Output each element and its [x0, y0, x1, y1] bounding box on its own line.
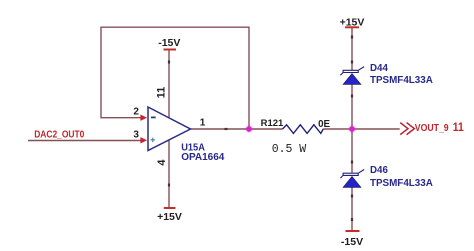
- svg-text:R121: R121: [261, 118, 284, 129]
- svg-text:11: 11: [155, 87, 167, 99]
- svg-text:DAC2_OUT0: DAC2_OUT0: [34, 129, 84, 141]
- svg-text:+15V: +15V: [340, 16, 365, 28]
- svg-text:OPA1664: OPA1664: [181, 152, 225, 163]
- svg-text:3: 3: [133, 129, 139, 140]
- svg-text:D46: D46: [370, 165, 388, 176]
- svg-text:+15V: +15V: [157, 211, 182, 223]
- svg-text:0.5 W: 0.5 W: [272, 143, 307, 156]
- svg-text:2: 2: [133, 107, 139, 118]
- svg-text:1: 1: [200, 117, 206, 128]
- svg-text:0E: 0E: [318, 119, 330, 130]
- svg-text:4: 4: [156, 159, 168, 166]
- svg-text:D44: D44: [370, 63, 388, 74]
- svg-text:TPSMF4L33A: TPSMF4L33A: [370, 178, 433, 189]
- svg-text:11: 11: [453, 122, 464, 135]
- svg-text:TPSMF4L33A: TPSMF4L33A: [370, 75, 433, 86]
- svg-text:-15V: -15V: [158, 37, 180, 49]
- svg-text:-15V: -15V: [341, 236, 363, 248]
- svg-text:VOUT_9: VOUT_9: [415, 122, 449, 134]
